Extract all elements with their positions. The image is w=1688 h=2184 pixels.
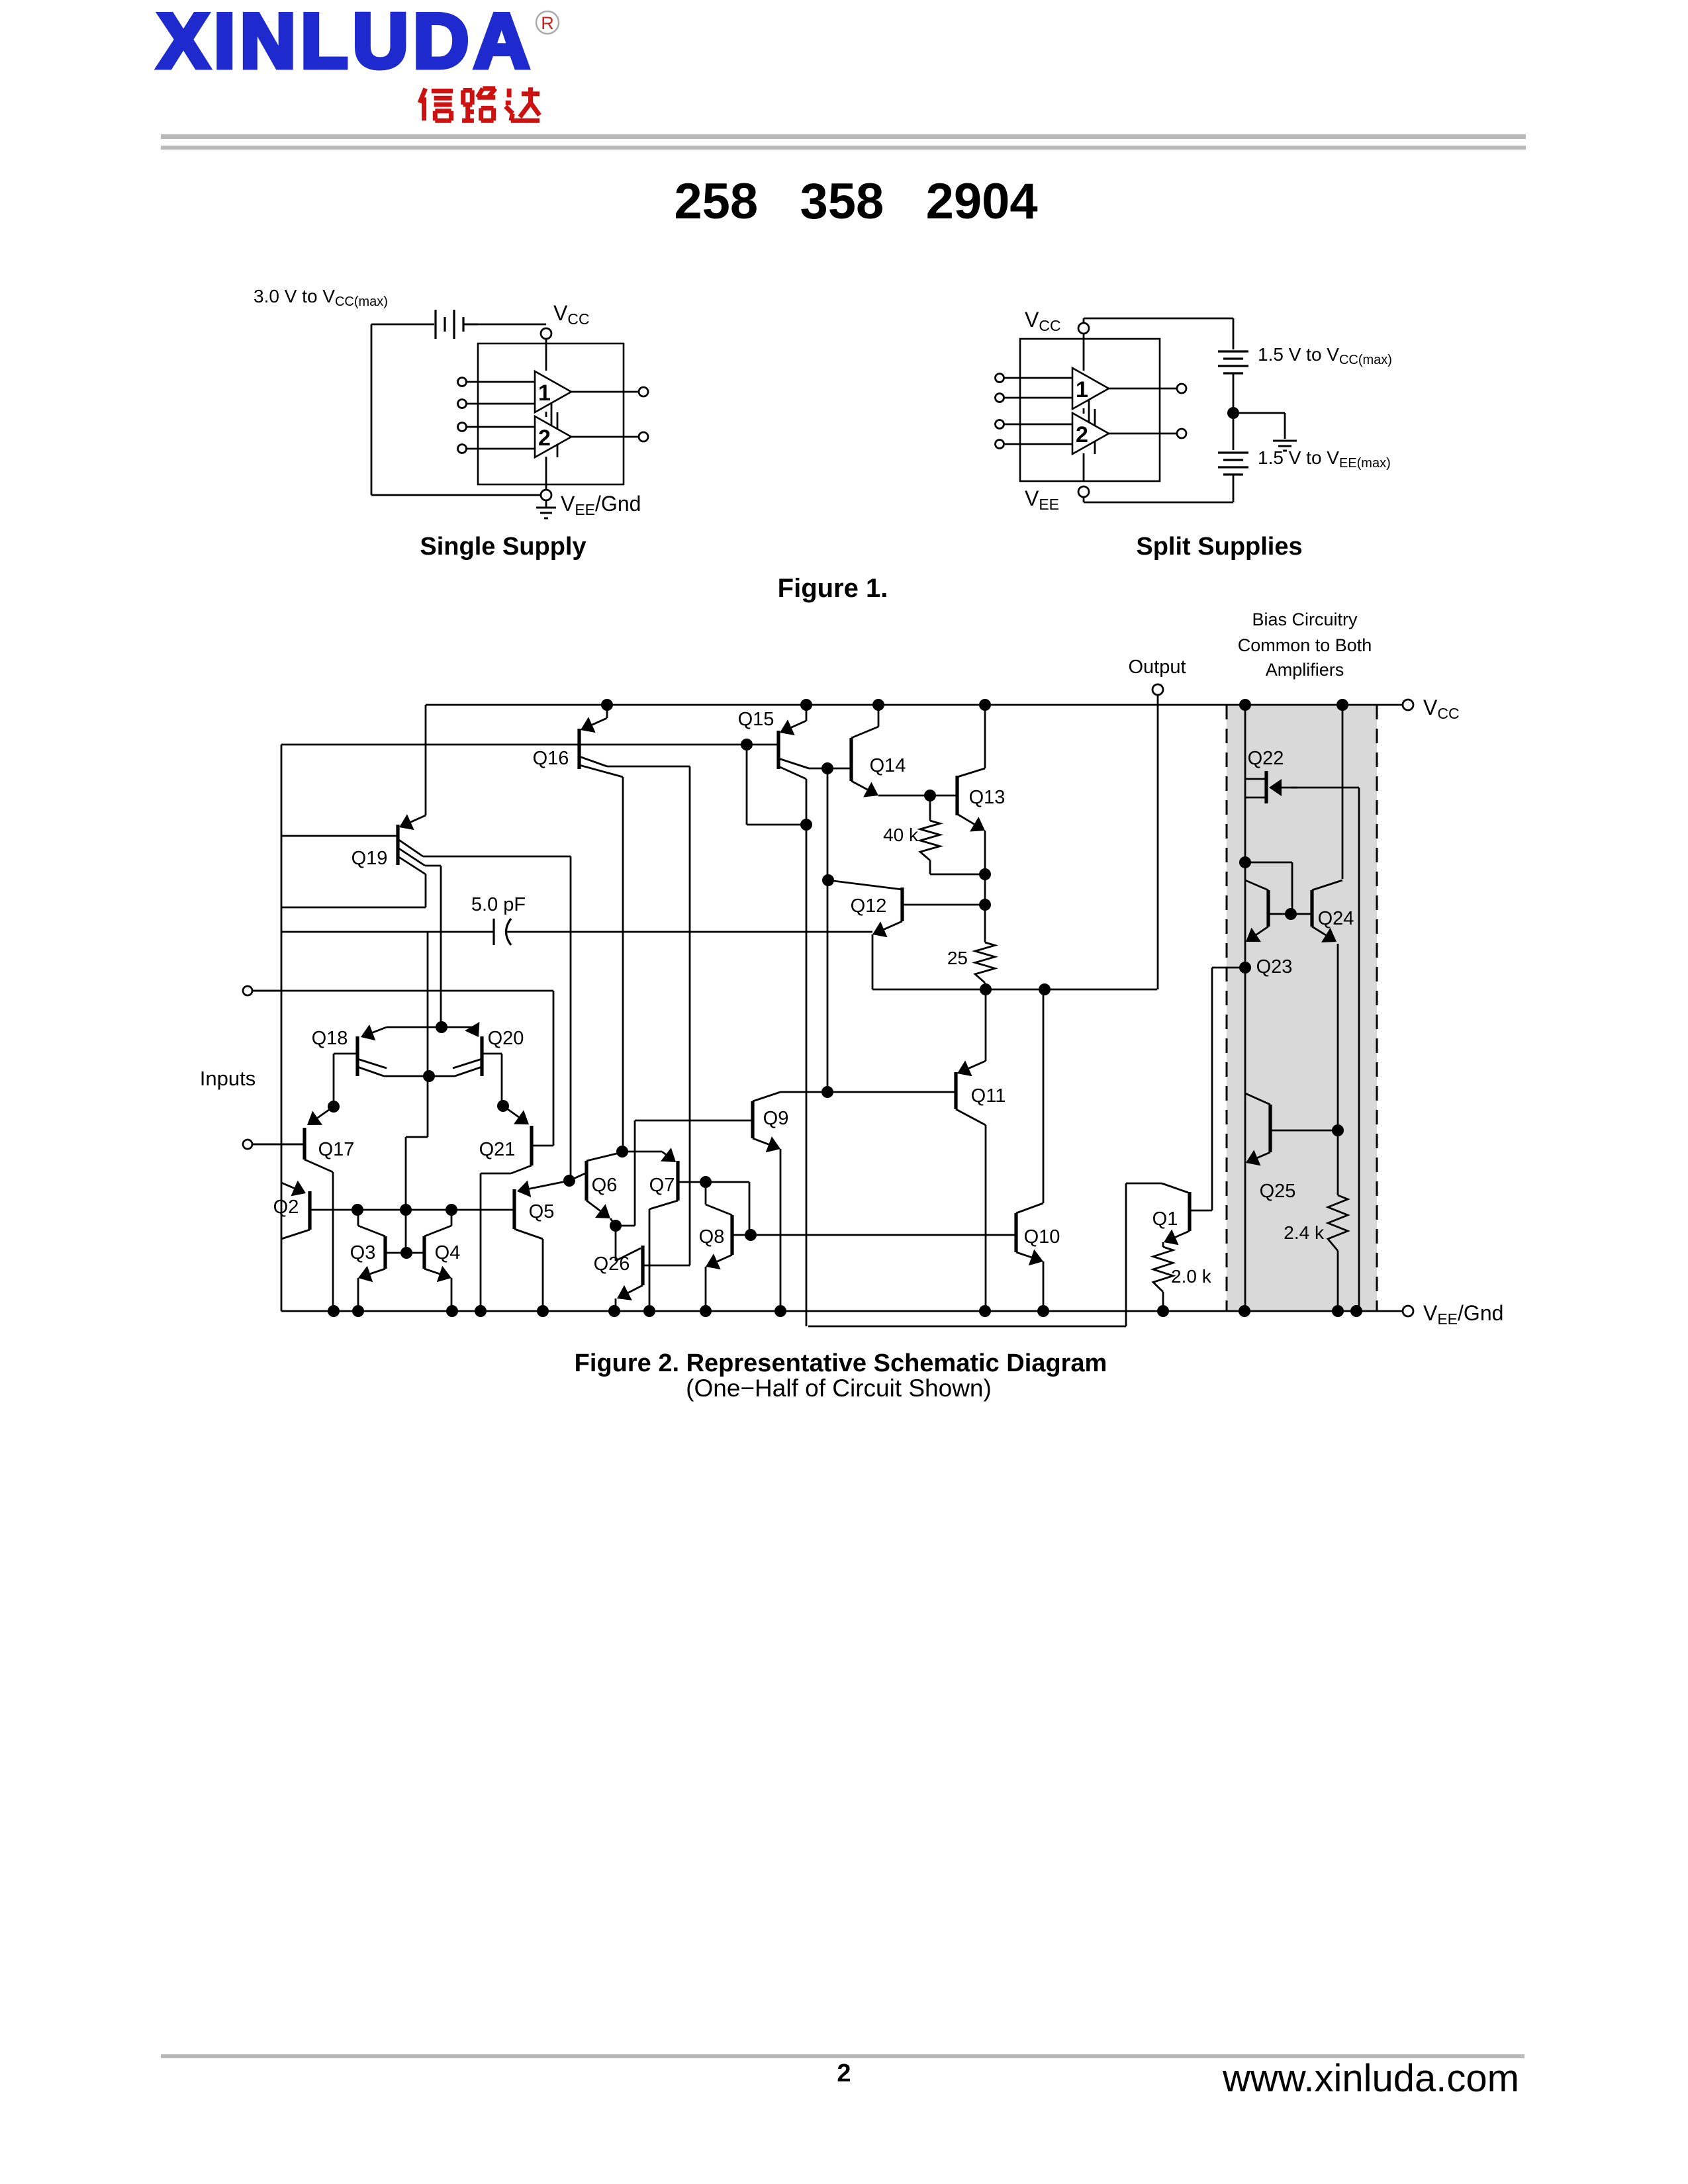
svg-text:Split Supplies: Split Supplies [1136, 533, 1302, 561]
svg-text:258 358 2904: 258 358 2904 [674, 173, 1037, 230]
svg-text:R: R [541, 13, 554, 33]
svg-text:Q21: Q21 [479, 1139, 516, 1160]
svg-text:Figure 2. Representative Schem: Figure 2. Representative Schematic Diagr… [575, 1349, 1107, 1377]
svg-text:Single Supply: Single Supply [420, 533, 586, 561]
svg-text:Q20: Q20 [488, 1028, 524, 1049]
svg-text:Inputs: Inputs [200, 1067, 256, 1090]
svg-text:www.xinluda.com: www.xinluda.com [1222, 2057, 1519, 2100]
svg-text:5.0 pF: 5.0 pF [471, 894, 526, 915]
svg-text:Q10: Q10 [1024, 1226, 1060, 1248]
svg-text:Common to Both: Common to Both [1238, 635, 1372, 655]
svg-text:Q15: Q15 [738, 709, 774, 730]
svg-text:Q9: Q9 [763, 1108, 789, 1129]
svg-text:Q14: Q14 [870, 755, 906, 776]
svg-text:Bias Circuitry: Bias Circuitry [1252, 610, 1358, 629]
svg-text:Q6: Q6 [592, 1175, 618, 1196]
svg-text:2.4 k: 2.4 k [1284, 1222, 1325, 1243]
svg-text:Q12: Q12 [851, 895, 887, 917]
svg-text:Q26: Q26 [594, 1253, 630, 1275]
svg-text:Q16: Q16 [533, 748, 569, 769]
svg-text:Q5: Q5 [529, 1201, 555, 1222]
svg-text:Output: Output [1128, 657, 1186, 678]
svg-text:VEE/Gnd: VEE/Gnd [1423, 1301, 1503, 1328]
svg-text:2: 2 [1076, 422, 1088, 447]
svg-text:Q4: Q4 [435, 1242, 461, 1263]
svg-text:(One−Half of Circuit Shown): (One−Half of Circuit Shown) [686, 1375, 992, 1402]
svg-text:Q2: Q2 [273, 1197, 299, 1218]
svg-text:Q25: Q25 [1260, 1181, 1296, 1202]
svg-text:Figure 1.: Figure 1. [778, 574, 888, 603]
svg-text:Q17: Q17 [318, 1139, 355, 1160]
svg-text:Q18: Q18 [312, 1028, 348, 1049]
svg-text:Q8: Q8 [699, 1226, 725, 1248]
svg-text:Q3: Q3 [350, 1242, 376, 1263]
svg-text:2: 2 [538, 426, 551, 451]
svg-text:Q7: Q7 [649, 1175, 675, 1196]
svg-text:VEE/Gnd: VEE/Gnd [561, 492, 641, 518]
svg-text:25: 25 [947, 948, 968, 968]
svg-text:1: 1 [538, 381, 551, 406]
svg-text:Q13: Q13 [969, 787, 1006, 808]
svg-text:Q19: Q19 [352, 848, 388, 869]
svg-text:XINLUDA: XINLUDA [158, 0, 534, 84]
svg-text:Amplifiers: Amplifiers [1266, 660, 1344, 680]
svg-text:40 k: 40 k [883, 825, 919, 845]
svg-text:2.0 k: 2.0 k [1171, 1266, 1212, 1287]
svg-text:Q22: Q22 [1248, 748, 1284, 769]
svg-text:Q23: Q23 [1256, 956, 1293, 978]
svg-text:Q24: Q24 [1318, 908, 1354, 929]
svg-text:Q11: Q11 [971, 1085, 1006, 1107]
svg-text:2: 2 [837, 2060, 851, 2087]
svg-text:1: 1 [1076, 377, 1088, 402]
svg-text:Q1: Q1 [1152, 1208, 1178, 1230]
